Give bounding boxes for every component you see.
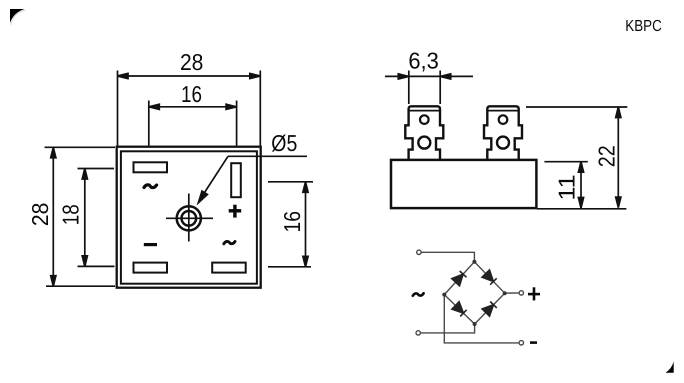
svg-text:16: 16	[181, 81, 202, 107]
svg-text:28: 28	[180, 49, 204, 75]
svg-text:Ø5: Ø5	[271, 130, 297, 156]
svg-text:11: 11	[554, 175, 580, 201]
svg-text:KBPC: KBPC	[625, 18, 662, 35]
svg-text:22: 22	[594, 145, 620, 167]
svg-text:6,3: 6,3	[408, 47, 439, 73]
svg-text:18: 18	[58, 204, 84, 225]
svg-text:16: 16	[279, 211, 305, 233]
svg-text:28: 28	[27, 203, 53, 227]
